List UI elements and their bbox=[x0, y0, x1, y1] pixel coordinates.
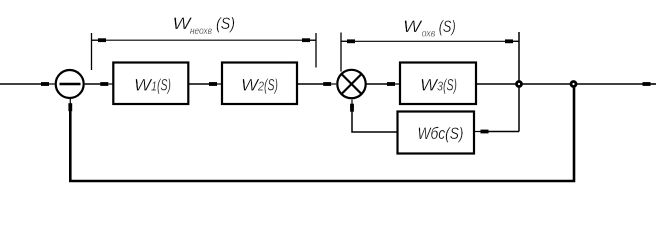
svg-text:W: W bbox=[403, 17, 423, 36]
svg-text:охв: охв bbox=[422, 27, 436, 39]
svg-text:W1(S): W1(S) bbox=[134, 77, 171, 95]
svg-text:неохв: неохв bbox=[190, 25, 212, 37]
svg-text:W3(S): W3(S) bbox=[420, 77, 457, 95]
svg-text:W2(S): W2(S) bbox=[241, 77, 278, 95]
svg-text:Wбс(S): Wбс(S) bbox=[418, 125, 464, 143]
svg-text:(S): (S) bbox=[439, 17, 456, 36]
svg-text:(S): (S) bbox=[216, 14, 235, 33]
